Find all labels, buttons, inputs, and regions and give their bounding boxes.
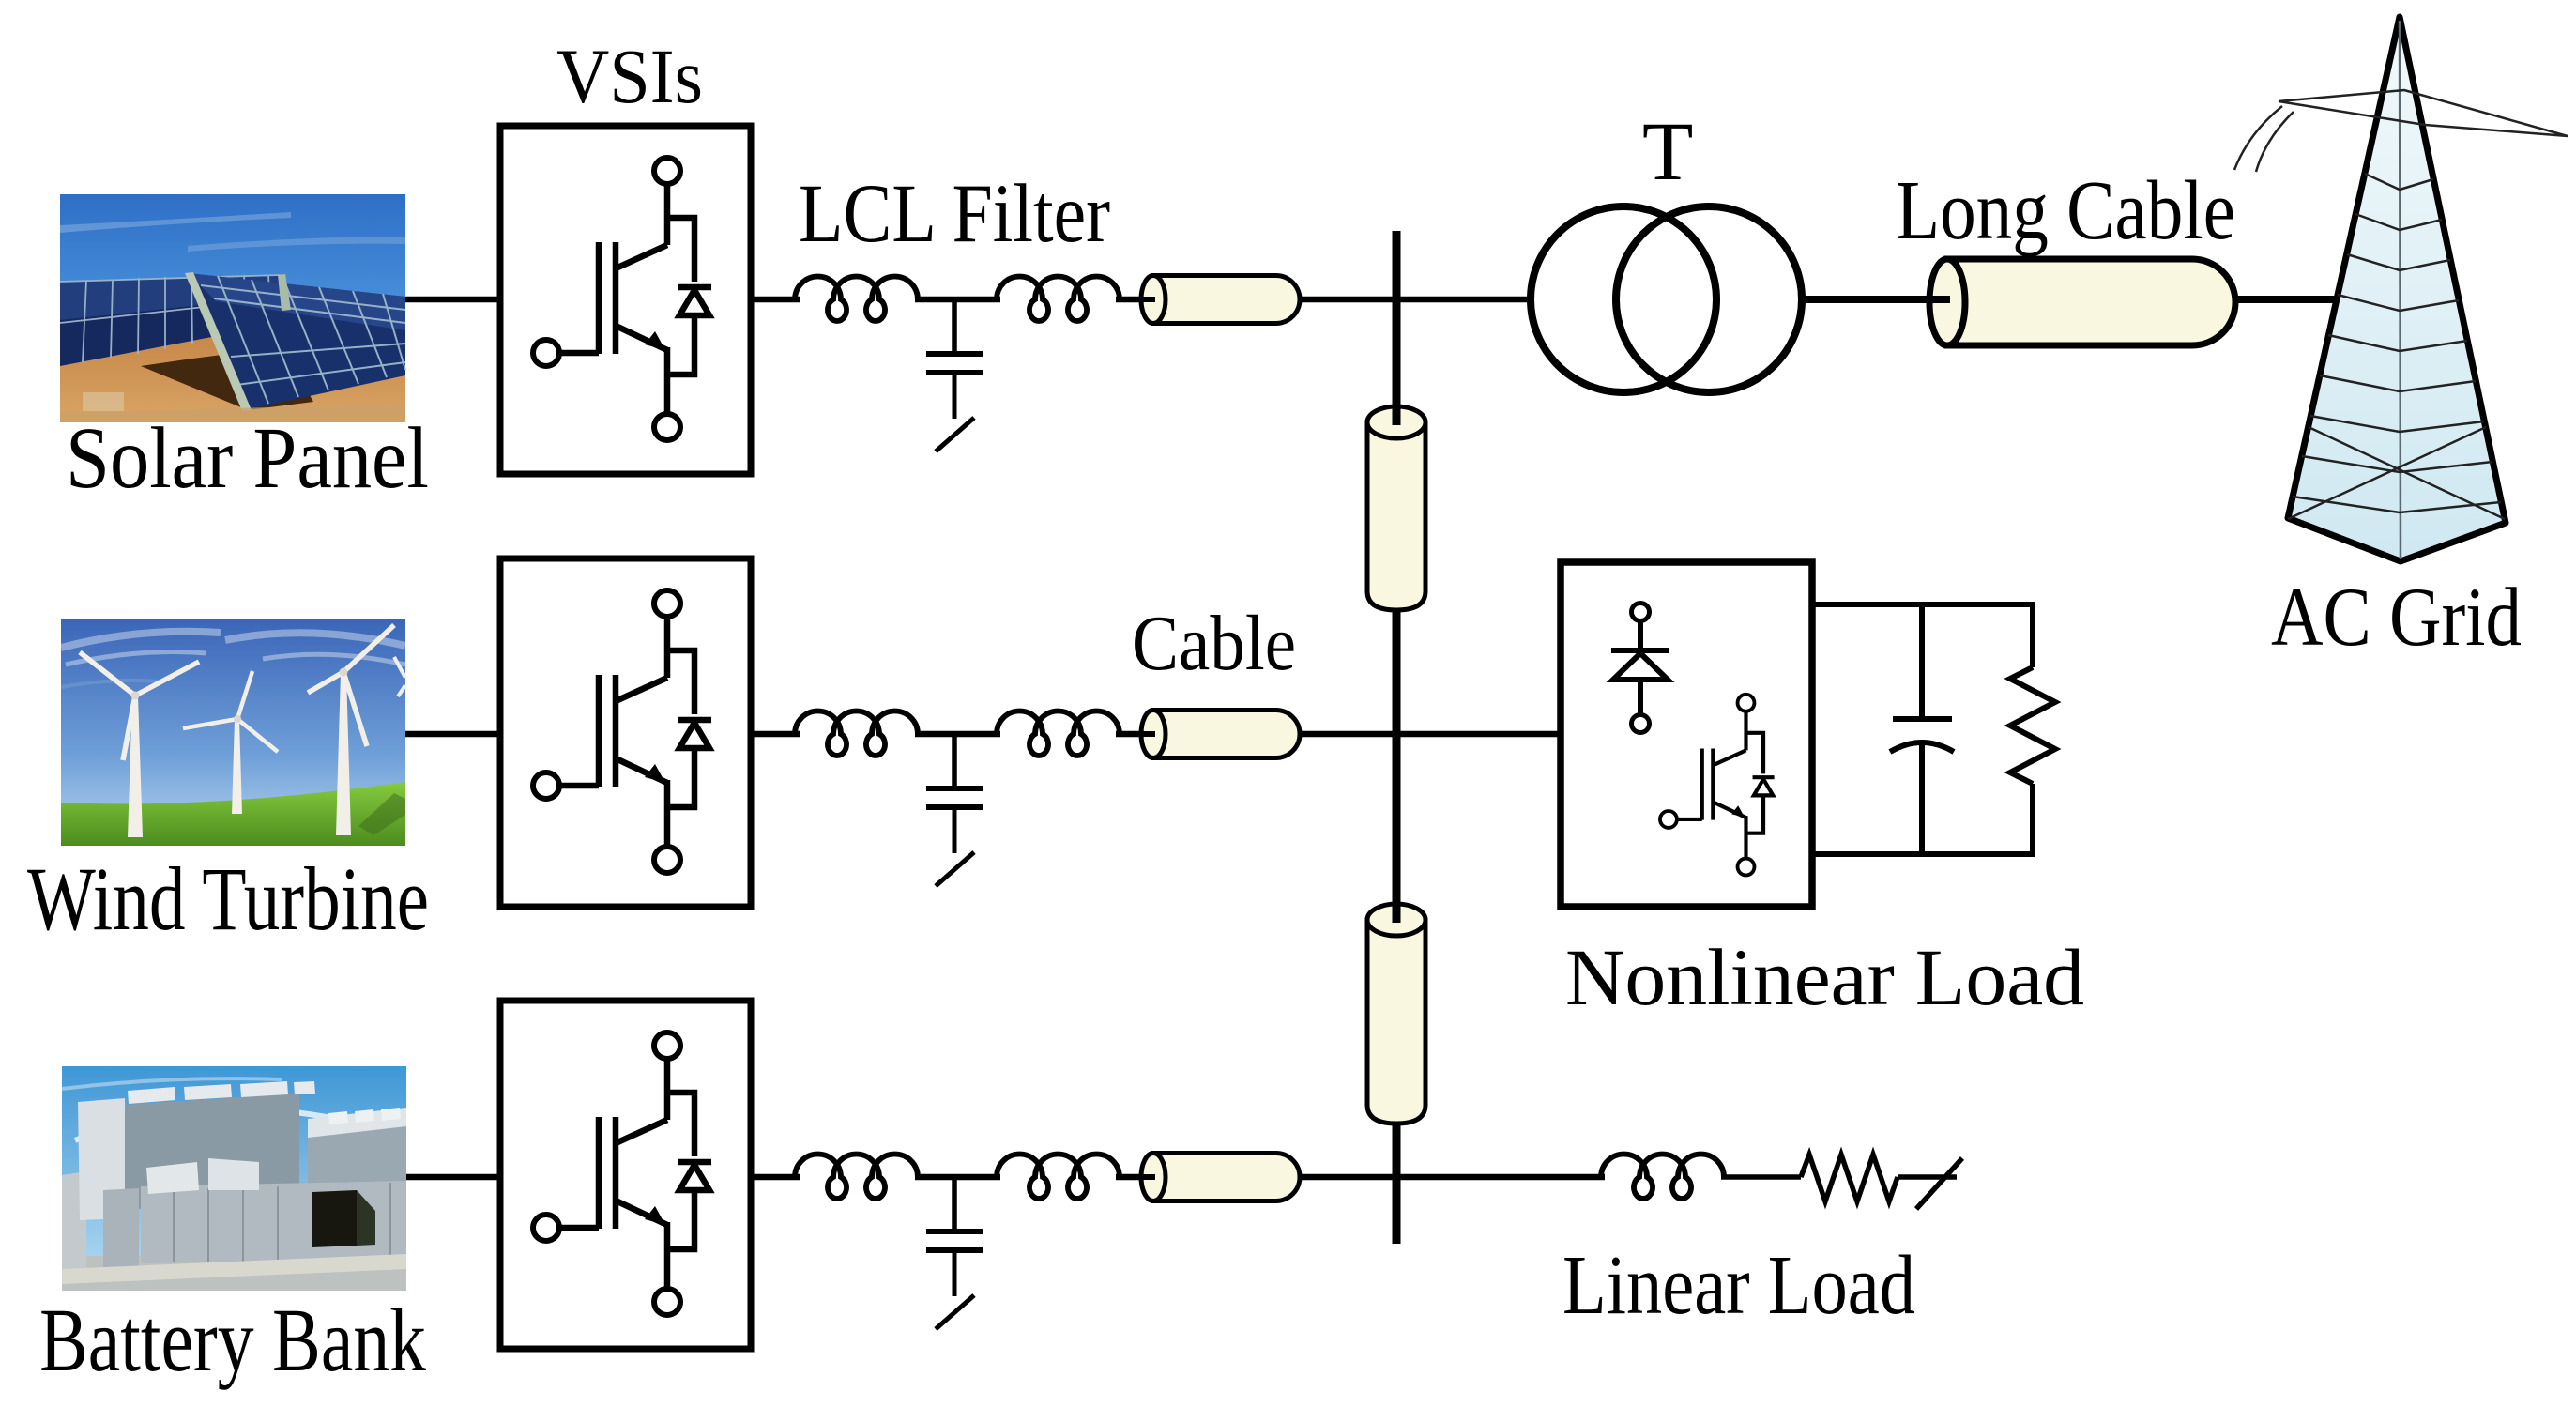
tower crossarm (2279, 90, 2568, 136)
power line curves to Long Cable label (2234, 106, 2294, 172)
LCL filter row 3: shunt capacitor and ground (952, 1177, 957, 1231)
LCL filter row 1: inductor L2 (997, 277, 1120, 321)
wire: row 3 VSI to LCL (751, 1174, 800, 1181)
long cable (cylinder) (1947, 259, 2235, 345)
nonlinear load IGBT (small) (1660, 695, 1775, 876)
bus bar (vertical) (1393, 231, 1401, 1244)
svg-text:Battery Bank: Battery Bank (39, 1290, 426, 1390)
LCL filter row 2: shunt capacitor and ground (952, 734, 957, 788)
AC grid transmission tower (2234, 17, 2568, 561)
photo: solar panel (60, 194, 405, 422)
wire: row 1 inductor2 to cable (1116, 297, 1147, 303)
LCL filter row 3: inductor L1 (795, 1155, 918, 1199)
svg-text:Cable: Cable (1132, 600, 1296, 687)
wire: row 1 between inductors (915, 297, 1000, 303)
svg-text:Long Cable: Long Cable (1896, 164, 2235, 257)
svg-text:Solar Panel: Solar Panel (66, 410, 429, 507)
VSI box 3 (battery) with IGBT (500, 1001, 751, 1349)
wire: solar panel to VSI 1 (404, 297, 500, 303)
linear load switch slash (1916, 1158, 1962, 1209)
svg-text:Wind Turbine: Wind Turbine (27, 849, 429, 949)
wire: row 3 cable to bus to linear load (1300, 1174, 1605, 1181)
nonlinear load RC branch wires (1812, 604, 2033, 854)
VSI box 2 (wind) with IGBT (500, 558, 751, 907)
photo: battery bank (62, 1066, 406, 1291)
photo: wind turbine (61, 619, 405, 846)
cable (cylinder) row 3 (1139, 1154, 1300, 1201)
cable (cylinder) row 1 (1139, 276, 1300, 324)
wire: transformer to long cable (1802, 296, 1933, 303)
LCL filter row 1: shunt capacitor and ground (952, 299, 957, 353)
LCL filter row 1: inductor L1 (795, 277, 918, 321)
svg-text:VSIs: VSIs (556, 33, 703, 119)
wire: row 1 VSI to LCL (751, 297, 800, 303)
cable (cylinder) row 2 (1139, 711, 1300, 758)
svg-text:AC Grid: AC Grid (2271, 572, 2522, 664)
vertical cable segment lower bus (1367, 920, 1425, 1124)
transformer T (1531, 206, 1716, 392)
wire: battery bank to VSI 3 (404, 1174, 500, 1181)
wire: row 1 cable to bus to transformer (1300, 297, 1532, 303)
svg-text:LCL Filter: LCL Filter (799, 168, 1110, 260)
nonlinear load capacitor (1919, 604, 1925, 719)
nonlinear load box (1561, 562, 1812, 907)
VSI box 1 (solar) with IGBT (500, 126, 751, 474)
wire: long cable to AC grid tower (2235, 296, 2339, 303)
linear load resistor (1801, 1155, 1898, 1201)
LCL filter row 2: inductor L2 (997, 711, 1120, 756)
svg-text:Linear Load: Linear Load (1562, 1239, 1915, 1332)
wire: row 2 VSI to LCL (751, 731, 800, 738)
nonlinear load diode (1611, 604, 1669, 733)
LCL filter row 3: inductor L2 (997, 1155, 1120, 1199)
LCL filter row 2: inductor L1 (795, 711, 918, 756)
wire: wind turbine to VSI 2 (404, 731, 500, 738)
wire: row 2 cable to bus to nonlinear load (1300, 731, 1561, 738)
svg-text:T: T (1642, 106, 1693, 198)
vertical cable segment upper bus (1367, 422, 1425, 610)
nonlinear load resistor (2010, 667, 2055, 784)
linear load inductor (1601, 1155, 1724, 1199)
svg-text:Nonlinear Load: Nonlinear Load (1565, 932, 2084, 1022)
